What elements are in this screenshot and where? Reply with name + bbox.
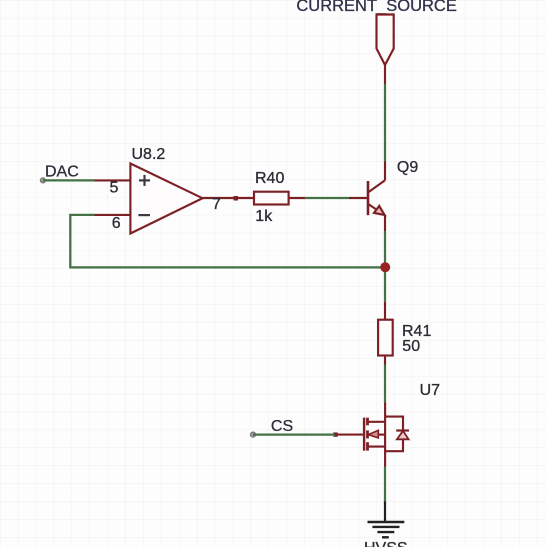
body diode triangle: [397, 431, 409, 440]
pin 7 output: [203, 197, 237, 199]
wire CS to gate: [253, 433, 335, 435]
collector pin: [384, 162, 386, 181]
svg-text:1k: 1k: [255, 208, 273, 225]
transistor Q9: [349, 162, 385, 232]
ground bar 3: [377, 531, 394, 533]
right pin: [289, 197, 306, 199]
wire R41 to U7 drain: [384, 365, 386, 403]
port dot CS: [250, 432, 255, 437]
svg-text:U7: U7: [420, 382, 441, 399]
minus sign: [138, 214, 150, 216]
wire DAC to pin 5: [43, 179, 95, 181]
emitter pin: [384, 215, 386, 231]
svg-text:6: 6: [112, 215, 121, 232]
pin 6: [95, 214, 131, 216]
ground bar 1: [368, 521, 405, 524]
triangle body: [130, 164, 202, 234]
pin 7 hotspot square: [234, 196, 239, 201]
bottom pin: [384, 356, 386, 365]
top pin: [384, 302, 386, 320]
svg-text:CS: CS: [271, 418, 293, 435]
gate pin: [335, 434, 363, 436]
svg-text:50: 50: [402, 338, 420, 355]
ground bar 4: [382, 536, 389, 538]
body diode branch bottom: [385, 439, 403, 451]
channel segment top: [366, 418, 369, 426]
svg-text:5: 5: [110, 180, 119, 197]
wire R40 to Q9 base: [305, 197, 349, 199]
collector diagonal: [368, 180, 385, 192]
pin stub below power port: [384, 64, 386, 84]
ground stub: [384, 502, 386, 522]
body diode cathode bar: [396, 429, 409, 431]
channel segment bottom: [366, 442, 369, 450]
body diode branch top: [385, 417, 403, 431]
plus sign: [139, 179, 150, 181]
port dot DAC: [40, 178, 45, 183]
svg-text:HVSS: HVSS: [364, 540, 408, 547]
resistor R40: [238, 192, 306, 205]
svg-text:R40: R40: [255, 170, 284, 187]
bulk arrow line: [378, 434, 385, 436]
body: [378, 320, 393, 356]
pin 5: [95, 179, 131, 181]
junction node dot: [380, 262, 390, 272]
drain connect: [368, 421, 386, 423]
wire power port to Q9 collector: [384, 84, 386, 162]
ground bar 2: [372, 526, 399, 528]
emitter arrowhead: [374, 206, 385, 215]
svg-text:7: 7: [212, 196, 221, 213]
left pin: [238, 197, 255, 199]
drain-source vertical: [384, 402, 386, 466]
base pin: [349, 197, 367, 199]
svg-text:CURRENT_SOURCE: CURRENT_SOURCE: [296, 0, 456, 15]
svg-text:Q9: Q9: [397, 159, 418, 176]
resistor R41: [378, 302, 393, 365]
gate bar: [363, 418, 365, 451]
svg-text:U8.2: U8.2: [132, 146, 166, 163]
wire U7 source to ground: [384, 467, 386, 504]
feedback wire pin6 to emitter node: [70, 215, 385, 268]
power port CURRENT_SOURCE: [377, 15, 394, 66]
channel segment middle: [366, 430, 369, 438]
emitter diagonal: [368, 204, 381, 213]
bulk arrowhead: [368, 430, 378, 438]
op-amp U8.2: [95, 164, 239, 234]
mosfet U7: [333, 402, 409, 466]
ground HVSS: [368, 502, 405, 538]
wire emitter down through node to R41: [384, 231, 386, 302]
source connect: [368, 446, 386, 448]
svg-text:DAC: DAC: [45, 163, 79, 180]
gate pin hotspot square: [333, 432, 337, 436]
base bar: [367, 181, 370, 215]
body: [254, 192, 289, 205]
